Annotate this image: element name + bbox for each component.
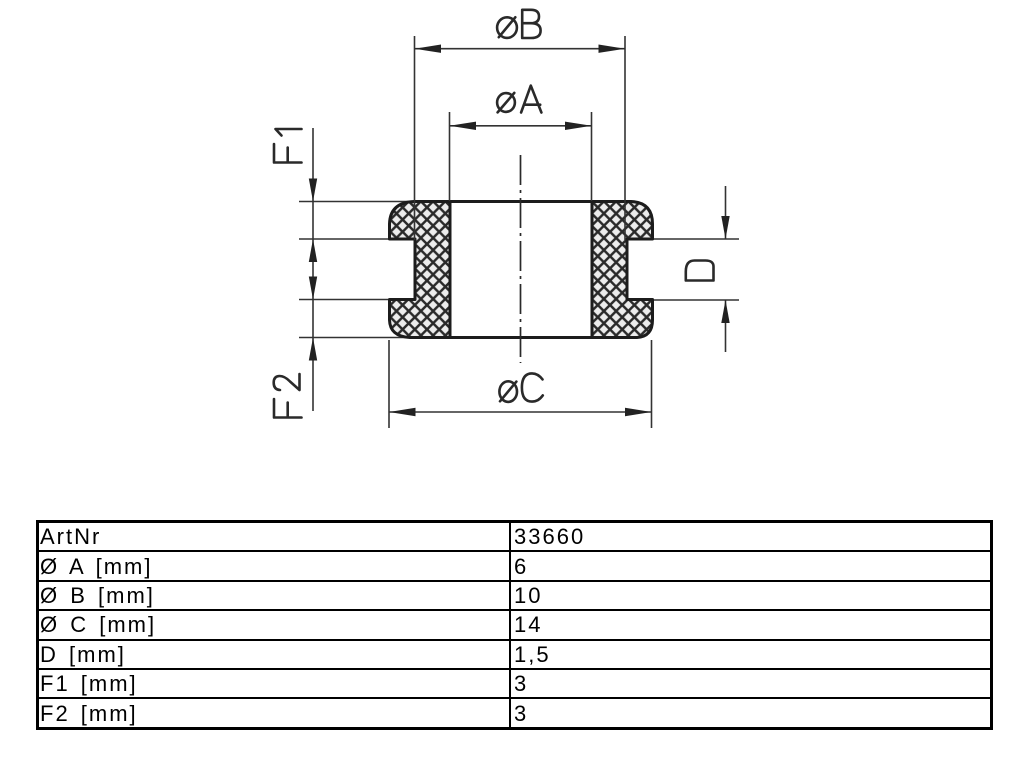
label F2 (rotated) bbox=[274, 374, 302, 418]
wire: groove top extension line (right, to D dim) bbox=[653, 238, 739, 240]
label øB bbox=[497, 10, 540, 38]
table row F1 bbox=[38, 669, 992, 698]
label F1 (rotated) bbox=[274, 129, 302, 163]
D lower arrow bbox=[721, 300, 729, 323]
wire: groove bottom extension line (right, to D dim) bbox=[653, 299, 739, 301]
table row D bbox=[38, 640, 992, 669]
dimension øA: dimension line with arrows bbox=[450, 125, 592, 127]
table row F2 bbox=[38, 698, 992, 728]
wire: bottom edge extension line (left, to F2 dim) bbox=[299, 337, 412, 339]
D upper arrow bbox=[721, 216, 729, 239]
label øA bbox=[497, 86, 541, 113]
dimension øA: extension lines bbox=[449, 112, 451, 201]
F2 lower arrow bbox=[309, 338, 317, 361]
wire: groove bottom extension line (left) bbox=[299, 299, 391, 301]
grommet left flange cross-section (crosshatched) bbox=[390, 202, 451, 338]
label øC bbox=[499, 373, 542, 402]
dimension øB: extension lines bbox=[414, 36, 416, 240]
dimension D: dimension line lower segment bbox=[725, 300, 727, 352]
F1 upper arrow bbox=[309, 179, 317, 202]
table row Ø B bbox=[38, 581, 992, 610]
dimension F1/F2: vertical dimension line bbox=[312, 128, 314, 411]
center line (dash-dot) bbox=[520, 155, 522, 363]
wire: groove top extension line (left) bbox=[299, 238, 391, 240]
dimension øC: dimension line with arrows bbox=[389, 411, 652, 413]
dimension øC: extension lines bbox=[388, 340, 390, 428]
table row Ø A bbox=[38, 551, 992, 580]
wire: top edge extension line (left, to F1 dim) bbox=[299, 201, 416, 203]
dimension øB: dimension line with arrows bbox=[415, 48, 626, 50]
table row Ø C bbox=[38, 610, 992, 639]
grommet top edge bbox=[414, 200, 631, 203]
dimension D: dimension line upper segment bbox=[725, 186, 727, 239]
table row ArtNr bbox=[38, 522, 992, 729]
grommet right flange cross-section (crosshatched) bbox=[592, 202, 653, 338]
grommet bottom edge bbox=[410, 336, 637, 339]
specification table bbox=[36, 520, 993, 730]
F2 upper arrow bbox=[309, 277, 317, 300]
label D (rotated) bbox=[686, 261, 714, 281]
F1 lower arrow bbox=[309, 239, 317, 262]
